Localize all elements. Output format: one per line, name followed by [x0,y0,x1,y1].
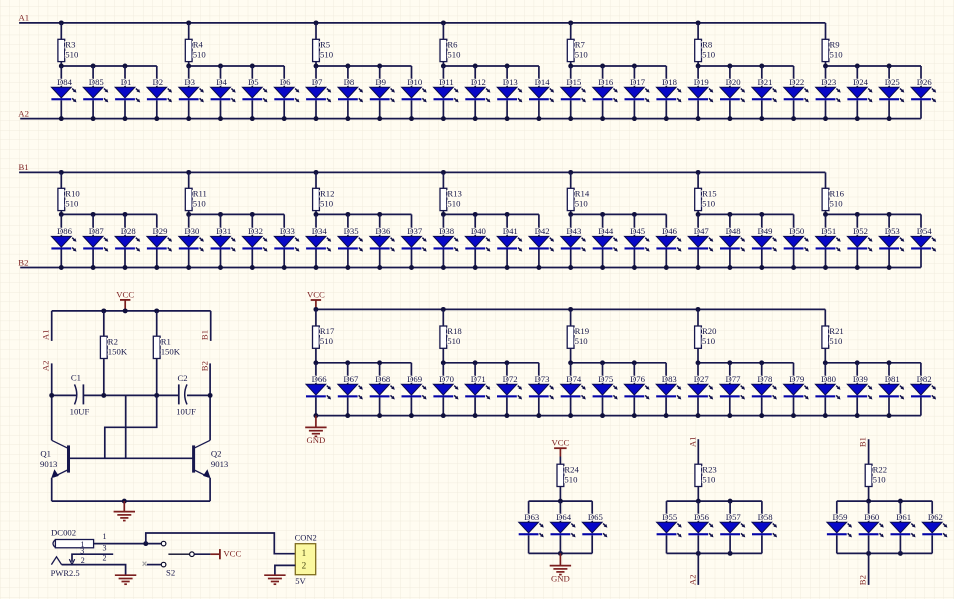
wire R9 top lead [825,23,827,39]
wire D28 cathode lead [124,250,126,268]
wire D68 anode lead [379,363,381,385]
wire R4 bottom lead [188,62,190,66]
wire D17 cathode lead [633,100,635,118]
transistor Q1 [40,440,70,478]
resistor R12 [313,188,335,210]
junction dots on R4 sub-rail [186,64,255,69]
svg-text:510: 510 [575,199,589,209]
wire D32 cathode lead [251,250,253,268]
wire D47 cathode lead [697,250,699,268]
wire D40 cathode lead [474,250,476,268]
junction dots on B1 rail [59,170,701,175]
wire D68 cathode lead [379,397,381,415]
wire R3 group sub-rail [61,65,157,67]
wire A2 rail [20,118,921,120]
LED D3 [179,77,204,102]
wire D87 cathode lead [92,250,94,268]
wire D31 anode lead [220,214,222,236]
svg-text:510: 510 [575,336,589,346]
wire D38 anode lead [442,214,444,236]
svg-text:B1: B1 [199,330,209,340]
LED D84 [51,77,76,102]
wire D59 anode lead [836,501,838,522]
wire D43 anode lead [570,214,572,236]
wire D34 cathode lead [315,250,317,268]
LED D76 [624,374,649,399]
wire D27 anode lead [697,363,699,385]
svg-text:D55: D55 [662,512,677,522]
wire D48 cathode lead [729,250,731,268]
node A2 (cluster) [687,575,697,586]
LED D24 [847,77,872,102]
ground row3 [305,427,326,436]
wire DC002 pin3 [72,554,113,562]
resistor R17 [313,326,336,348]
svg-text:510: 510 [320,336,334,346]
svg-text:R5: R5 [320,40,330,50]
svg-text:9013: 9013 [211,459,228,469]
svg-text:510: 510 [702,50,716,60]
svg-text:D65: D65 [588,512,603,522]
svg-text:D5: D5 [248,77,259,87]
wire D19 cathode lead [697,100,699,118]
wire D75 cathode lead [602,397,604,415]
wire D36 cathode lead [379,250,381,268]
svg-text:10UF: 10UF [176,406,196,416]
wire R11 bottom lead [188,211,190,215]
wire D20 cathode lead [729,100,731,118]
junction dots R24 cluster [558,499,563,556]
wire R15 bottom lead [697,211,699,215]
LED D56 [688,512,713,537]
wire D74 anode lead [570,363,572,385]
LED D21 [752,77,777,102]
wire D46 anode lead [665,214,667,236]
jack switch arrow [69,559,74,564]
wire R3 top lead [60,23,62,39]
svg-text:D61: D61 [896,512,911,522]
svg-text:R20: R20 [702,326,717,336]
svg-text:D18: D18 [662,77,678,87]
wire D48 anode lead [729,214,731,236]
wire D33 cathode lead [283,250,285,268]
wire R10 bottom lead [60,211,62,215]
wire D57 anode lead [729,501,731,522]
wire D23 anode lead [825,66,827,87]
svg-text:510: 510 [447,50,461,60]
LED D62 [922,512,947,537]
junction dots on R11 sub-rail [186,212,255,217]
wire D8 anode lead [347,66,349,87]
wire R5 bottom lead [315,62,317,66]
LED D35 [338,226,363,251]
wire R24 bottom lead [559,487,561,502]
svg-text:D81: D81 [885,374,900,384]
wire D15 anode lead [570,66,572,87]
ground power jack [115,575,136,584]
wire D13 anode lead [506,66,508,87]
svg-text:D29: D29 [153,226,168,236]
power VCC (indicator cluster) [551,438,569,448]
wire D32 anode lead [251,214,253,236]
resistor R21 [822,326,844,348]
wire D79 cathode lead [793,397,795,415]
svg-text:510: 510 [65,50,79,60]
LED D15 [561,77,586,102]
svg-text:D9: D9 [375,77,386,87]
wire D21 cathode lead [761,100,763,118]
wire D69 cathode lead [410,397,412,415]
wire D21 anode lead [761,66,763,87]
wire D9 anode lead [379,66,381,87]
LED D87 [83,226,108,251]
svg-text:R13: R13 [447,189,461,199]
svg-text:D7: D7 [312,77,323,87]
wire D4 anode lead [220,66,222,87]
svg-text:D25: D25 [885,77,900,87]
ground multivib [114,512,135,521]
LED D79 [784,374,809,399]
LED D18 [656,77,681,102]
svg-text:B1: B1 [858,437,868,447]
wire D62 anode lead [931,501,933,522]
wire D35 anode lead [347,214,349,236]
junction dots on R21 sub-rail [823,360,892,365]
svg-text:D51: D51 [821,226,836,236]
wire D86 cathode lead [60,250,62,268]
LED D51 [816,226,841,251]
svg-text:R8: R8 [702,40,713,50]
wire D34 anode lead [315,214,317,236]
wire A1 stub [51,311,53,341]
wire D53 anode lead [888,214,890,236]
wire D25 cathode lead [888,100,890,118]
wire D58 anode lead [761,501,763,522]
wire D38 cathode lead [442,250,444,268]
LED D29 [147,226,172,251]
wire R22 cluster bottom rail [837,552,932,554]
wire D87 anode lead [92,214,94,236]
power VCC (row 3) [307,289,325,299]
LED D69 [402,374,427,399]
LED D53 [879,226,904,251]
wire D3 cathode lead [188,100,190,118]
LED D11 [434,77,459,102]
junction dots on VCC rail [313,307,700,312]
wire R21 group sub-rail [825,362,921,364]
wire D54 cathode lead [920,250,922,268]
LED D47 [688,226,713,251]
wire R18 bottom lead [442,348,444,363]
wire R11 top lead [188,172,190,188]
wire D6 anode lead [283,66,285,87]
LED D14 [529,77,554,102]
svg-text:D57: D57 [726,512,742,522]
wire D74 cathode lead [570,397,572,415]
wire D82 cathode lead [920,397,922,415]
wire DC002 pin2/sleeve [62,565,126,576]
svg-text:D59: D59 [833,512,848,522]
wire D30 anode lead [188,214,190,236]
wire D37 cathode lead [411,250,413,268]
LED D72 [497,374,522,399]
svg-text:D48: D48 [726,226,742,236]
svg-text:510: 510 [320,199,334,209]
wire D27 cathode lead [697,397,699,415]
svg-text:VCC: VCC [307,289,325,299]
LED D33 [274,226,299,251]
svg-text:B2: B2 [18,257,28,267]
wire R17 top lead [315,309,317,326]
LED D64 [551,512,576,537]
wire D72 cathode lead [506,397,508,415]
connector CON2 [295,532,317,574]
svg-text:GND: GND [551,573,570,583]
svg-text:2: 2 [81,556,85,565]
svg-text:510: 510 [447,336,461,346]
wire D35 cathode lead [347,250,349,268]
wire R21 top lead [824,309,826,326]
node B2 (row 2 cathode rail) [18,257,28,267]
svg-text:510: 510 [564,474,578,484]
resistor R13 [440,188,462,210]
junction dots on R9 sub-rail [823,64,892,69]
svg-text:D76: D76 [630,374,646,384]
capacitor C1 [71,373,84,405]
capacitor C2 [178,373,188,405]
wire D1 anode lead [124,66,126,87]
wire R1 top lead [156,311,158,336]
svg-text:PWR2.5: PWR2.5 [51,568,80,578]
svg-text:C2: C2 [178,373,188,383]
wire R19 group sub-rail [571,362,667,364]
svg-text:R1: R1 [161,336,171,346]
svg-text:D8: D8 [344,77,355,87]
resistor R20 [695,326,718,348]
wire A1 rail [19,22,825,24]
svg-text:D52: D52 [853,226,868,236]
LED D9 [370,77,395,102]
wire D78 anode lead [761,363,763,385]
svg-text:DC002: DC002 [51,527,76,537]
wire R16 bottom lead [825,211,827,215]
svg-text:R10: R10 [65,189,80,199]
svg-text:D26: D26 [917,77,933,87]
svg-text:D44: D44 [598,226,614,236]
LED D23 [816,77,841,102]
wire D14 anode lead [538,66,540,87]
junction dots on A1 rail [59,20,701,25]
junction dots on R6 sub-rail [441,64,510,69]
junction dots on multivib top rail [101,308,159,313]
svg-text:D49: D49 [758,226,773,236]
junction dots R23 cluster [696,499,733,556]
svg-text:2: 2 [103,554,107,563]
wire D11 anode lead [442,66,444,87]
wire base wire [68,457,193,459]
wire R17 group sub-rail [316,362,412,364]
LED D73 [529,374,554,399]
svg-text:D54: D54 [917,226,933,236]
wire R5 group sub-rail [316,65,412,67]
LED D52 [847,226,872,251]
LED D46 [656,226,681,251]
wire D53 cathode lead [888,250,890,268]
wire D45 anode lead [633,214,635,236]
wire D71 cathode lead [474,397,476,415]
svg-text:D70: D70 [439,374,455,384]
wire S2 common to VCC [194,553,210,555]
svg-text:R17: R17 [320,326,335,336]
LED D66 [306,374,331,399]
wire Q1 emitter lead [51,478,53,501]
wire D9 cathode lead [379,100,381,118]
wire D84 anode lead [60,66,62,87]
svg-text:D23: D23 [821,77,836,87]
svg-text:D87: D87 [89,226,105,236]
wire VCC rail row3 [316,308,825,310]
LED D12 [465,77,490,102]
resistor R4 [185,39,203,61]
svg-text:A1: A1 [19,13,30,23]
junction dots on R7 sub-rail [568,64,637,69]
node A1 stub (multivibrator) [40,329,50,340]
svg-text:D64: D64 [556,512,572,522]
LED D41 [497,226,522,251]
LED D27 [688,374,713,399]
LED D40 [465,226,490,251]
svg-text:510: 510 [65,199,79,209]
junction dots on R5 sub-rail [314,64,383,69]
svg-text:R9: R9 [830,40,840,50]
wire R24 cluster sub-rail [529,500,593,502]
LED D60 [859,512,884,537]
svg-text:D22: D22 [789,77,804,87]
resistor R7 [567,39,585,61]
wire D26 anode lead [920,66,922,87]
svg-text:D66: D66 [312,374,328,384]
wire cross-couple center vertical [125,395,127,458]
wire R5 top lead [315,23,317,39]
wire D65 cathode lead [591,535,593,553]
LED D85 [83,77,108,102]
svg-text:R22: R22 [873,464,887,474]
svg-text:D6: D6 [280,77,291,87]
wire D10 anode lead [411,66,413,87]
wire D73 cathode lead [538,397,540,415]
wire D67 anode lead [347,363,349,385]
wire D14 cathode lead [538,100,540,118]
LED D34 [306,226,331,251]
ground cluster [550,566,571,575]
wire R1 node to C2 [157,394,179,396]
wire R12 top lead [315,172,317,188]
wire R20 top lead [697,309,699,326]
resistor R5 [313,39,331,61]
wire D71 anode lead [474,363,476,385]
wire R10 top lead [60,172,62,188]
wire D84 cathode lead [60,100,62,118]
svg-text:R4: R4 [193,40,204,50]
node A1 (cluster) [687,436,697,447]
wire R16 group sub-rail [826,213,922,215]
svg-text:Q1: Q1 [40,448,51,458]
wire A1 cluster lead [697,439,699,464]
wire D12 cathode lead [474,100,476,118]
wire D1 cathode lead [124,100,126,118]
LED D8 [338,77,363,102]
wire R23 cluster bottom rail [667,552,762,554]
svg-text:A1: A1 [687,436,697,447]
svg-text:D28: D28 [121,226,137,236]
svg-text:D11: D11 [439,77,454,87]
svg-text:10UF: 10UF [70,406,90,416]
wire A2 to C1 [52,394,77,396]
wire D33 anode lead [283,214,285,236]
svg-text:R15: R15 [702,189,716,199]
LED D31 [211,226,236,251]
wire R14 bottom lead [570,211,572,215]
wire D56 cathode lead [697,535,699,553]
LED D54 [911,226,936,251]
junction dots on R14 sub-rail [568,212,637,217]
wire R13 group sub-rail [443,213,539,215]
LED D57 [720,512,745,537]
wire D70 anode lead [442,363,444,385]
wire D16 cathode lead [602,100,604,118]
wire D80 cathode lead [824,397,826,415]
wire R11 group sub-rail [189,213,285,215]
wire D6 cathode lead [283,100,285,118]
svg-text:R23: R23 [702,464,716,474]
svg-text:VCC: VCC [223,549,241,559]
LED D37 [402,226,427,251]
resistor R3 [58,39,76,61]
wire D77 anode lead [729,363,731,385]
wire D51 cathode lead [825,250,827,268]
wire R18 top lead [442,309,444,326]
wire D85 cathode lead [92,100,94,118]
LED D44 [593,226,618,251]
wire D22 cathode lead [793,100,795,118]
junction dot at multivib GND [122,499,127,504]
wire Q2 emitter lead [209,478,211,501]
LED D83 [656,374,681,399]
wire D10 cathode lead [411,100,413,118]
wire R9 group sub-rail [826,65,922,67]
wire D22 anode lead [793,66,795,87]
LED D67 [338,374,363,399]
junction dots on A2 rail [59,116,892,121]
svg-text:D20: D20 [726,77,742,87]
junction dots multivib mid [49,393,212,398]
power VCC bar multivib [120,299,130,301]
power VCC (multivibrator) [116,289,134,299]
wire D83 cathode lead [665,397,667,415]
svg-text:D58: D58 [758,512,774,522]
wire R22 cluster sub-rail [837,500,932,502]
svg-text:D1: D1 [121,77,132,87]
junction dots R22 cluster [866,499,903,556]
svg-text:510: 510 [575,50,589,60]
LED D59 [827,512,852,537]
svg-text:Q2: Q2 [211,448,222,458]
LED D80 [815,374,840,399]
LED D19 [688,77,713,102]
svg-text:R21: R21 [829,326,843,336]
LED D70 [433,374,458,399]
svg-text:D3: D3 [184,77,195,87]
